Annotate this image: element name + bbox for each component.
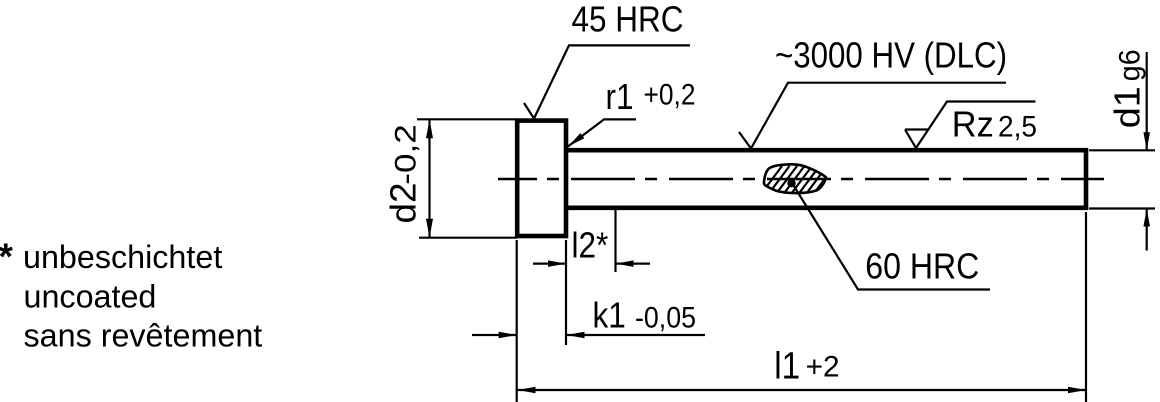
d1 dimension line lower [1146,209,1148,251]
centerline [498,178,1104,180]
surface symbol 45 HRC (checkmark + bar) [524,45,690,118]
d2 extension line top [417,118,517,120]
l1 arrow left [518,387,536,394]
pin shaft outline [566,150,1086,208]
d1 arrow down [1143,132,1150,150]
arrowhead r1 [568,133,584,146]
svg-text:Rz: Rz [952,103,994,144]
surface symbol ~3000 HV (checkmark + bar) [739,83,1006,149]
blob hatch lines [749,163,842,206]
svg-text:unbeschichtet: unbeschichtet [23,239,222,275]
d1 extension line top [1089,149,1155,151]
svg-text:~3000 HV (DLC): ~3000 HV (DLC) [775,35,1007,76]
leader r1 [568,119,636,146]
blob center dot [787,179,795,187]
svg-text:l2*: l2* [572,224,609,265]
d2 arrow up [426,119,433,138]
svg-text:k1: k1 [593,294,626,335]
l2 dimension left tail + arrow [533,263,566,265]
leader 60 HRC [792,183,990,290]
d2 arrow down [426,219,433,238]
svg-text:-0,05: -0,05 [635,301,696,334]
l1 dimension line [518,389,1087,391]
svg-text:r1: r1 [606,76,634,117]
svg-text:-0,2: -0,2 [390,124,423,185]
d1 extension line bottom [1089,207,1155,209]
d2 extension line bottom [419,237,517,239]
svg-text:uncoated: uncoated [24,278,157,314]
l2 extension line right [614,208,616,272]
svg-text:*: * [0,236,14,277]
svg-text:45 HRC: 45 HRC [572,0,684,40]
l1 extension line left (head left edge extended) [516,240,518,402]
l2/k1 extension line (head right edge extended) [565,240,567,345]
svg-text:d2: d2 [383,183,424,224]
svg-text:g6: g6 [1114,49,1147,81]
label d2 -0,2 (rotated) [383,124,424,223]
roughness symbol Rz (triangle checkmark + bar) [905,102,1036,149]
svg-text:d1: d1 [1107,86,1148,128]
d1 arrow up [1143,209,1150,227]
svg-text:60 HRC: 60 HRC [865,246,979,287]
svg-text:2,5: 2,5 [998,111,1037,144]
l2 dimension right tail + arrow [616,263,651,265]
label d1 g6 (rotated) [1107,49,1148,128]
svg-text:+0,2: +0,2 [644,78,696,111]
l1 arrow right [1068,387,1086,394]
d2 dimension line [428,119,430,237]
svg-text:+2: +2 [806,350,840,383]
l1 extension line right (shaft end extended) [1085,212,1087,402]
svg-text:sans revêtement: sans revêtement [24,317,263,353]
d1 dimension line upper [1146,52,1148,150]
k1 dimension right tail + arrow [567,334,706,336]
k1 dimension left tail + arrow [472,334,517,336]
svg-text:l1: l1 [774,346,800,388]
pin head outline [517,121,566,236]
